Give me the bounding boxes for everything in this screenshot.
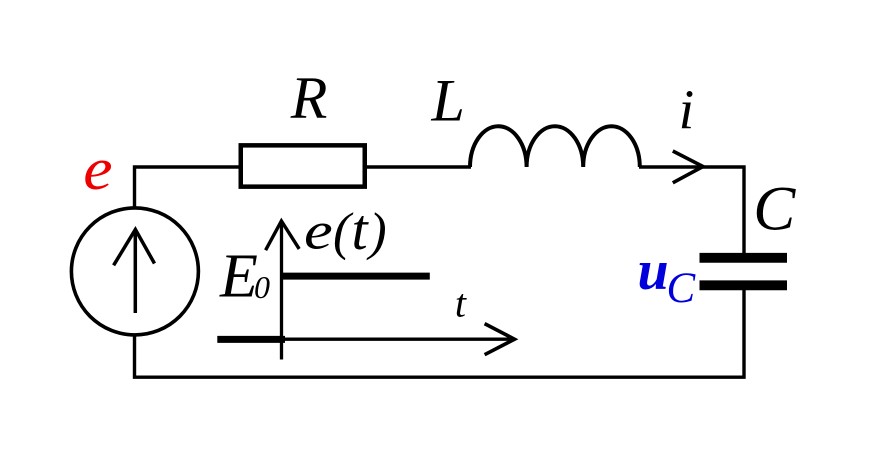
wire: [135, 290, 745, 377]
svg-text:e: e: [304, 201, 333, 260]
inset t axis: [282, 338, 514, 341]
wire: [639, 167, 744, 254]
svg-text:): ): [366, 203, 387, 261]
svg-text:t: t: [455, 281, 467, 326]
svg-text:L: L: [431, 68, 465, 134]
source U1: [71, 208, 198, 335]
wire: [135, 167, 241, 209]
inset zero line: [217, 336, 285, 343]
capacitor C plate bottom: [700, 280, 788, 290]
wire: [366, 165, 471, 168]
inductor L: [470, 126, 640, 167]
svg-text:i: i: [679, 80, 695, 142]
svg-text:R: R: [290, 65, 328, 131]
svg-text:E: E: [219, 242, 258, 310]
svg-text:C: C: [667, 265, 697, 312]
svg-text:t: t: [352, 197, 370, 262]
inset e(t) axis vertical: [280, 222, 283, 360]
capacitor C plate top: [700, 253, 788, 263]
svg-text:0: 0: [254, 269, 270, 305]
resistor R: [241, 145, 365, 186]
svg-text:e: e: [83, 136, 112, 203]
inset step line E0 level: [282, 273, 430, 280]
svg-text:u: u: [638, 240, 669, 302]
current arrow i: [673, 151, 703, 183]
source arrow: [134, 231, 138, 313]
svg-text:C: C: [753, 174, 796, 244]
